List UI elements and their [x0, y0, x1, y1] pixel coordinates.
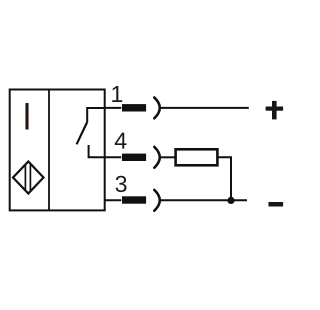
connector socket 3 (arc) [154, 190, 160, 211]
+ supply terminal [266, 101, 284, 120]
wire: body to pin 3 [105, 199, 122, 201]
switch blade Q (NO contact) [77, 122, 88, 144]
sensor body divider [48, 90, 50, 211]
connector pin 4 (male contact) [122, 154, 146, 161]
load resistor R [176, 149, 218, 165]
wire: resistor to node A [218, 157, 231, 200]
wire: socket 1 to + terminal [160, 107, 249, 109]
connector socket 4 (arc) [154, 147, 160, 168]
connector socket 1 (arc) [154, 98, 160, 119]
wire: body to pin 1 [105, 107, 122, 109]
wire: pin 4 internal lead [89, 145, 105, 157]
inductive core bar [25, 103, 28, 130]
connector pin 1 (male contact) [122, 104, 146, 111]
wire: pin 1 internal lead [87, 108, 105, 122]
- supply terminal [269, 202, 284, 207]
pin number 1 [112, 86, 122, 102]
junction node A [227, 197, 234, 204]
connector pin 3 (male contact) [122, 196, 146, 203]
wire: socket 3 to - terminal [160, 199, 247, 201]
sensor body outline [10, 90, 105, 211]
proximity sensor symbol (diamond) [13, 162, 44, 194]
pin number 4 [115, 133, 127, 149]
pin number 3 [116, 176, 127, 192]
wire: body to pin 4 [105, 156, 122, 158]
wire: socket 4 to load resistor [160, 156, 175, 158]
